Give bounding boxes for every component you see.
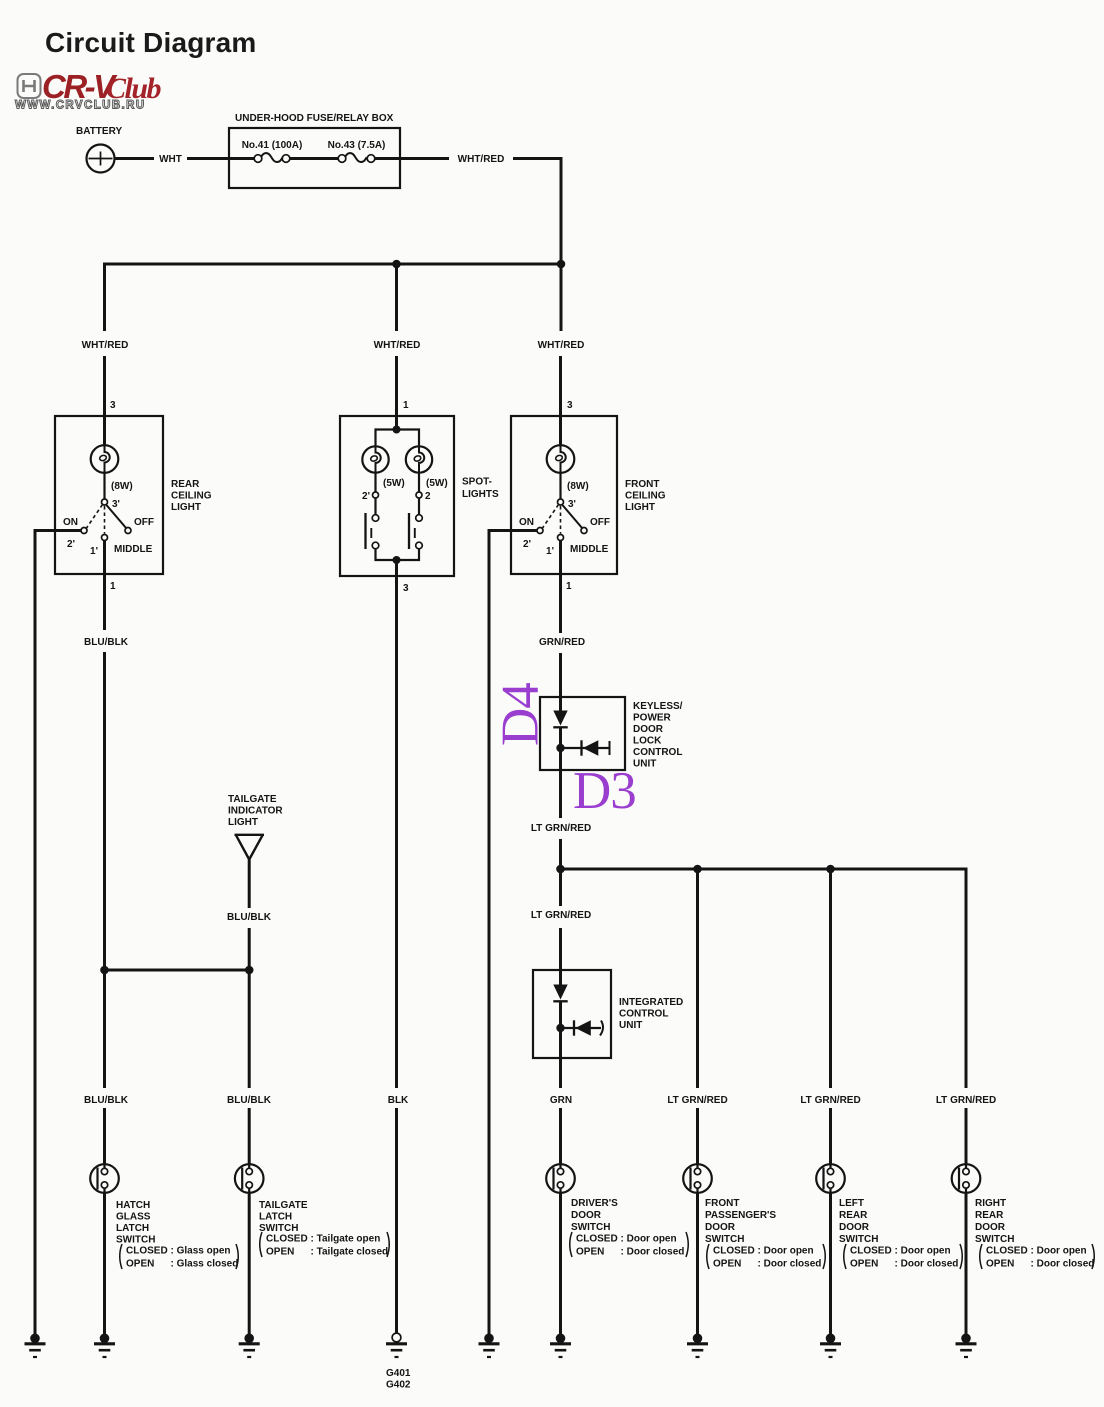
svg-text:CLOSED: CLOSED: [266, 1234, 308, 1245]
svg-text:2': 2': [523, 539, 531, 550]
wire contact to plunger left: [374, 498, 376, 515]
wire 1' rear down: [103, 540, 106, 630]
wire ON front going left and down to ground: [489, 531, 537, 1335]
svg-text:PASSENGER'S: PASSENGER'S: [705, 1210, 776, 1221]
svg-text:UNDER-HOOD FUSE/RELAY BOX: UNDER-HOOD FUSE/RELAY BOX: [235, 113, 394, 124]
junction at spotlights feed: [392, 260, 401, 269]
junction spot top: [393, 426, 401, 434]
bulb spot right (5W): [406, 446, 432, 473]
switch arm dashed to ON front: [543, 505, 559, 529]
wire blk vertical: [395, 1108, 398, 1333]
svg-text:SPOT-: SPOT-: [462, 477, 492, 488]
svg-text:POWER: POWER: [633, 713, 672, 724]
wire through keyless unit: [559, 727, 562, 818]
svg-text:SWITCH: SWITCH: [705, 1234, 744, 1245]
hatch switch states: [120, 1244, 239, 1270]
wire to front ceiling box: [559, 356, 562, 445]
tailgate indicator light symbol: [235, 835, 265, 860]
svg-text:OPEN: OPEN: [576, 1247, 604, 1258]
svg-text:MIDDLE: MIDDLE: [114, 544, 153, 555]
svg-text:DOOR: DOOR: [571, 1210, 602, 1221]
svg-text:: Door closed: : Door closed: [1031, 1259, 1095, 1270]
svg-text:G402: G402: [386, 1380, 411, 1391]
fuse No.43: [338, 155, 346, 163]
svg-text:1: 1: [110, 581, 116, 592]
junction bus2 left rear: [826, 865, 835, 874]
ground driver: [550, 1334, 571, 1358]
svg-text:INTEGRATED: INTEGRATED: [619, 997, 683, 1008]
svg-text:: Door closed: : Door closed: [758, 1259, 822, 1270]
tailgate switch states: [260, 1232, 390, 1258]
driver switch states: [570, 1232, 689, 1258]
ground tailgate: [239, 1334, 260, 1358]
wire spot top split: [376, 430, 420, 447]
diode ICU vertical: [553, 985, 567, 1000]
ground right rear: [956, 1334, 977, 1358]
svg-text:BATTERY: BATTERY: [76, 126, 122, 137]
wire to rear ceiling box: [103, 356, 106, 445]
svg-text:WHT/RED: WHT/RED: [82, 340, 129, 351]
ground front-on wire: [479, 1334, 500, 1358]
wire battery to WHT label: [115, 157, 155, 160]
ground G401 G402 open circle: [386, 1333, 407, 1357]
svg-text:CLOSED: CLOSED: [126, 1246, 168, 1257]
svg-text:: Door closed: : Door closed: [895, 1259, 959, 1270]
bulb rear ceiling (8W): [91, 445, 119, 473]
wire bus down to front ceiling light: [560, 264, 563, 331]
svg-text:LATCH: LATCH: [116, 1223, 149, 1234]
svg-text:HATCH: HATCH: [116, 1200, 150, 1211]
svg-text:1: 1: [403, 400, 409, 411]
svg-text:: Door open: : Door open: [621, 1234, 677, 1245]
svg-text:: Door open: : Door open: [895, 1246, 951, 1257]
svg-text:LOCK: LOCK: [633, 736, 662, 747]
switch arm dashed to 1' rear: [104, 506, 106, 534]
svg-text:: Door open: : Door open: [758, 1246, 814, 1257]
wire bulb left to contact: [374, 473, 376, 492]
svg-text:BLU/BLK: BLU/BLK: [227, 912, 272, 923]
integrated control unit box: [533, 970, 611, 1058]
wire fp vertical: [696, 869, 699, 1334]
svg-text:(8W): (8W): [567, 481, 589, 492]
switch arm dashed to ON rear: [87, 505, 103, 529]
svg-text:FRONT: FRONT: [625, 479, 659, 490]
svg-text:3: 3: [567, 400, 573, 411]
svg-text:DOOR: DOOR: [633, 724, 664, 735]
junction ICU diode: [556, 1024, 564, 1032]
svg-text:No.43 (7.5A): No.43 (7.5A): [328, 140, 386, 151]
wire bulb right to contact: [418, 473, 420, 492]
svg-text:GRN: GRN: [550, 1095, 572, 1106]
svg-text:RIGHT: RIGHT: [975, 1198, 1006, 1209]
contact 2' spot: [373, 492, 379, 498]
connector wire between rear and tailgate branches: [105, 969, 250, 972]
svg-text:OPEN: OPEN: [850, 1259, 878, 1270]
svg-text:LT GRN/RED: LT GRN/RED: [531, 910, 591, 921]
ground rear-on wire: [25, 1334, 46, 1358]
wire grn vertical: [559, 1108, 562, 1334]
contact ON front: [537, 528, 543, 534]
wire to integrated control unit: [559, 928, 562, 985]
svg-text:Circuit Diagram: Circuit Diagram: [45, 27, 257, 58]
wire tailgate to junction: [248, 928, 251, 1088]
wire rr vertical: [965, 1108, 968, 1334]
svg-text:LIGHT: LIGHT: [228, 817, 258, 828]
svg-text:WHT/RED: WHT/RED: [458, 154, 505, 165]
junction bus2 main: [556, 865, 565, 874]
wire spot output down: [395, 560, 398, 1088]
svg-text:(5W): (5W): [426, 478, 448, 489]
svg-text:DOOR: DOOR: [839, 1222, 870, 1233]
svg-text:: Tailgate closed: : Tailgate closed: [311, 1247, 389, 1258]
wire 1' front down: [559, 540, 562, 633]
wire WHT/RED to corner and down to bus: [513, 159, 561, 265]
svg-text:LT GRN/RED: LT GRN/RED: [800, 1095, 860, 1106]
bus wire y869: [561, 869, 967, 1088]
ground left rear: [820, 1334, 841, 1358]
svg-text:SWITCH: SWITCH: [116, 1235, 155, 1246]
contact OFF front: [581, 528, 587, 534]
contact 3' rear: [102, 499, 108, 505]
svg-text:DOOR: DOOR: [975, 1222, 1006, 1233]
svg-text:D3: D3: [573, 762, 636, 820]
svg-text:G401: G401: [386, 1368, 411, 1379]
svg-text:3: 3: [403, 583, 409, 594]
keyless/power door lock control unit box: [540, 697, 625, 770]
svg-text:TAILGATE: TAILGATE: [259, 1200, 308, 1211]
svg-text:1': 1': [90, 546, 98, 557]
svg-text:: Door closed: : Door closed: [621, 1247, 685, 1258]
wire hatch vertical: [103, 1108, 106, 1334]
contact 1' rear: [102, 535, 108, 541]
svg-text:INDICATOR: INDICATOR: [228, 806, 283, 817]
svg-text:1': 1': [546, 546, 554, 557]
svg-text:CONTROL: CONTROL: [633, 747, 682, 758]
svg-text:DRIVER'S: DRIVER'S: [571, 1198, 618, 1209]
wire front down into keyless unit: [559, 653, 562, 711]
svg-text:SWITCH: SWITCH: [975, 1234, 1014, 1245]
svg-text:CLOSED: CLOSED: [850, 1246, 892, 1257]
svg-text:LT GRN/RED: LT GRN/RED: [531, 823, 591, 834]
svg-text:CEILING: CEILING: [171, 491, 212, 502]
wire tailgate light down: [248, 860, 251, 909]
junction left: [100, 966, 109, 975]
svg-text:WHT: WHT: [159, 154, 182, 165]
svg-text:WWW.CRVCLUB.RU: WWW.CRVCLUB.RU: [15, 100, 146, 112]
wire fuse box to WHT/RED label: [375, 157, 449, 160]
front passenger's door switch SW4: [683, 1164, 712, 1193]
svg-text:LIGHTS: LIGHTS: [462, 489, 499, 500]
svg-text:OFF: OFF: [134, 517, 154, 528]
driver's door switch SW3: [546, 1164, 575, 1193]
svg-text:3: 3: [110, 400, 116, 411]
contact OFF rear: [125, 528, 131, 534]
svg-text:D4: D4: [492, 683, 550, 746]
front ceiling light box: [511, 416, 617, 574]
svg-text:REAR: REAR: [839, 1210, 868, 1221]
under-hood fuse/relay box: [229, 128, 400, 188]
svg-text:FRONT: FRONT: [705, 1198, 739, 1209]
fuse No.41: [254, 155, 262, 163]
svg-text:2': 2': [67, 539, 75, 550]
svg-text:3': 3': [112, 499, 120, 510]
svg-text:OPEN: OPEN: [126, 1259, 154, 1270]
svg-text:GRN/RED: GRN/RED: [539, 637, 585, 648]
svg-text:CLOSED: CLOSED: [986, 1246, 1028, 1257]
front passenger switch states: [707, 1244, 826, 1270]
wire through ICU: [559, 1001, 562, 1088]
right rear door switch SW6: [952, 1164, 981, 1193]
wire lr vertical: [829, 869, 832, 1334]
junction bus2 front passenger: [693, 865, 702, 874]
svg-text:TAILGATE: TAILGATE: [228, 794, 277, 805]
diode D4 vertical: [553, 711, 567, 726]
wire to spotlight box: [395, 356, 398, 430]
svg-text:CLOSED: CLOSED: [576, 1234, 618, 1245]
svg-text:BLK: BLK: [388, 1095, 409, 1106]
svg-text:2': 2': [362, 491, 370, 502]
right rear switch states: [980, 1244, 1095, 1270]
ground hatch: [94, 1334, 115, 1358]
svg-text:SWITCH: SWITCH: [571, 1222, 610, 1233]
logo CR-V Club: [15, 68, 162, 112]
contact 3' front: [558, 499, 564, 505]
svg-text:LATCH: LATCH: [259, 1212, 292, 1223]
svg-text:ON: ON: [519, 517, 534, 528]
wire tailgate vertical: [248, 1108, 251, 1334]
svg-text:GLASS: GLASS: [116, 1212, 151, 1223]
bulb front ceiling (8W): [547, 445, 575, 473]
svg-text:CONTROL: CONTROL: [619, 1009, 668, 1020]
svg-text:OFF: OFF: [590, 517, 610, 528]
wire bus down to rear ceiling light: [103, 263, 106, 331]
wire between fuses: [290, 157, 338, 160]
svg-text:OPEN: OPEN: [266, 1247, 294, 1258]
contact 1' front: [558, 535, 564, 541]
wire bulb to switch rear: [103, 473, 105, 499]
spotlights box: [340, 416, 454, 576]
wire ON rear going left and down to ground: [35, 531, 81, 1335]
svg-text:KEYLESS/: KEYLESS/: [633, 701, 683, 712]
svg-text:BLU/BLK: BLU/BLK: [84, 1095, 129, 1106]
junction keyless diode: [556, 744, 564, 752]
svg-text:REAR: REAR: [171, 479, 200, 490]
svg-text:LT GRN/RED: LT GRN/RED: [936, 1095, 996, 1106]
svg-text:LEFT: LEFT: [839, 1198, 864, 1209]
switch arm solid to OFF rear: [106, 505, 127, 529]
tailgate latch switch SW2: [235, 1164, 264, 1193]
wire bulb to switch front: [559, 473, 561, 499]
left rear switch states: [844, 1244, 963, 1270]
battery B1: [87, 145, 115, 173]
svg-text:ON: ON: [63, 517, 78, 528]
svg-text:OPEN: OPEN: [986, 1259, 1014, 1270]
svg-text:BLU/BLK: BLU/BLK: [227, 1095, 272, 1106]
svg-text:: Tailgate open: : Tailgate open: [311, 1234, 381, 1245]
svg-text:BLU/BLK: BLU/BLK: [84, 637, 129, 648]
left rear door switch SW5: [816, 1164, 845, 1193]
svg-text:(8W): (8W): [111, 481, 133, 492]
svg-text:2: 2: [425, 491, 431, 502]
svg-text:No.41 (100A): No.41 (100A): [242, 140, 303, 151]
ground front passenger: [687, 1334, 708, 1358]
switch arm solid to OFF front: [562, 505, 583, 529]
plunger switch left: [372, 515, 379, 522]
svg-text:LIGHT: LIGHT: [625, 502, 655, 513]
wire WHT to fuse box: [187, 157, 255, 160]
contact 2 spot: [416, 492, 422, 498]
wire rear down to junction and latch switch: [103, 652, 106, 1088]
rear ceiling light box: [55, 416, 163, 574]
bus wire y264: [103, 263, 561, 266]
switch arm dashed to 1' front: [560, 506, 562, 534]
wire spot bottom join: [376, 549, 420, 561]
svg-text:UNIT: UNIT: [619, 1020, 642, 1031]
svg-text:OPEN: OPEN: [713, 1259, 741, 1270]
svg-text:: Glass closed: : Glass closed: [171, 1259, 239, 1270]
svg-text:1: 1: [566, 581, 572, 592]
bulb spot left (5W): [362, 446, 388, 473]
junction right: [245, 966, 254, 975]
svg-text:3': 3': [568, 499, 576, 510]
diode ICU horizontal: [561, 1027, 602, 1029]
svg-text:: Glass open: : Glass open: [171, 1246, 231, 1257]
svg-text:WHT/RED: WHT/RED: [374, 340, 421, 351]
wire bus down to spotlights: [395, 264, 398, 331]
svg-text:SWITCH: SWITCH: [839, 1234, 878, 1245]
svg-text:MIDDLE: MIDDLE: [570, 544, 609, 555]
svg-text:REAR: REAR: [975, 1210, 1004, 1221]
hatch glass latch switch SW1: [90, 1164, 119, 1193]
svg-text:CEILING: CEILING: [625, 491, 666, 502]
svg-text:LIGHT: LIGHT: [171, 502, 201, 513]
wire contact to plunger right: [418, 498, 420, 515]
svg-text:SWITCH: SWITCH: [259, 1223, 298, 1234]
junction spot bottom: [393, 556, 401, 564]
diode D3 horizontal: [561, 747, 610, 749]
wire keyless to bus2: [559, 839, 562, 906]
contact ON rear: [81, 528, 87, 534]
junction at front ceiling feed: [557, 260, 566, 269]
svg-text:WHT/RED: WHT/RED: [538, 340, 585, 351]
plunger switch right: [416, 515, 423, 522]
svg-text:UNIT: UNIT: [633, 759, 656, 770]
svg-text:LT GRN/RED: LT GRN/RED: [667, 1095, 727, 1106]
svg-text:DOOR: DOOR: [705, 1222, 736, 1233]
svg-text:(5W): (5W): [383, 478, 405, 489]
svg-text:CLOSED: CLOSED: [713, 1246, 755, 1257]
svg-text:: Door open: : Door open: [1031, 1246, 1087, 1257]
